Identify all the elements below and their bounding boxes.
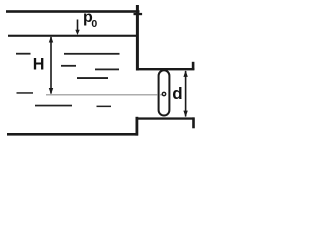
liquid dash row3	[95, 69, 119, 71]
svg-text:0: 0	[91, 18, 97, 30]
tank top wall	[6, 10, 140, 13]
liquid dash row1 long	[64, 53, 120, 55]
liquid surface line	[8, 35, 137, 37]
centerline inside capsule	[160, 94, 163, 95]
liquid dash row7	[97, 106, 112, 108]
centerline left segment	[46, 94, 158, 95]
liquid dash row1 left	[16, 53, 31, 55]
vent closed tick	[134, 13, 143, 15]
tank floor left	[7, 133, 138, 136]
p0 arrow	[77, 20, 79, 31]
liquid dash row5 left	[17, 92, 34, 94]
floor step vertical	[136, 117, 139, 136]
svg-text:H: H	[33, 55, 45, 73]
H dimension arrow	[50, 37, 52, 94]
orifice center ring	[162, 92, 165, 95]
liquid dash row6	[35, 105, 72, 107]
liquid dash row2	[61, 65, 76, 67]
liquid dash row4	[77, 77, 108, 79]
outlet pipe bottom wall	[136, 117, 194, 119]
outlet pipe top wall	[136, 68, 194, 70]
orifice disk capsule	[159, 70, 170, 115]
d dimension arrow	[185, 71, 187, 117]
svg-text:d: d	[172, 84, 182, 103]
pipe bottom end flange tick	[192, 117, 195, 128]
vent pipe (right wall upper stub)	[136, 5, 139, 71]
pipe top end flange tick	[192, 62, 195, 70]
